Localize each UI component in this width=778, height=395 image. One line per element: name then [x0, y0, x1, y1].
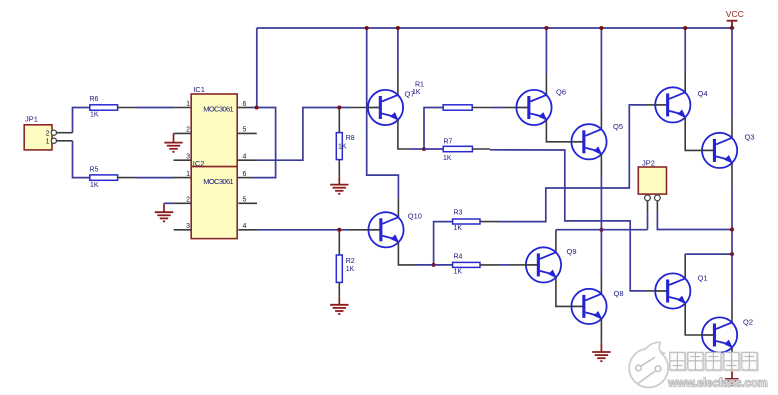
svg-text:JP1: JP1 — [25, 115, 38, 124]
transistor Q7 — [368, 90, 415, 126]
wire node to Q9 collector — [555, 230, 557, 253]
wire VCC rail to Q5 collector — [600, 28, 602, 129]
svg-text:1K: 1K — [443, 155, 452, 162]
junction rail x397.9 — [396, 26, 400, 30]
transistor Q3 — [702, 133, 755, 168]
pin IC1.4 number — [243, 154, 247, 161]
pin IC2.6 number — [243, 171, 247, 178]
junction Q3 emitter node — [730, 228, 734, 232]
pin IC2.4 number — [243, 223, 247, 230]
wire node to R4 — [434, 264, 453, 266]
svg-text:1K: 1K — [412, 89, 421, 96]
resistor R3 — [453, 210, 480, 233]
wire R3 to Q4 base — [480, 105, 655, 222]
svg-text:1K: 1K — [338, 143, 347, 150]
svg-text:JP2: JP2 — [642, 158, 655, 167]
transistor Q6 — [516, 88, 566, 126]
ground at IC2 pin 2 — [155, 203, 173, 221]
svg-text:1: 1 — [46, 139, 50, 146]
svg-text:R4: R4 — [454, 254, 463, 261]
wire Q10 collector lead — [397, 198, 399, 217]
wire R5 to IC2 pin 1 — [118, 177, 192, 179]
node VCC label — [726, 9, 744, 19]
svg-text:R5: R5 — [90, 167, 99, 174]
svg-text:Q4: Q4 — [698, 89, 708, 98]
svg-text:R2: R2 — [346, 258, 355, 265]
resistor R4 — [453, 254, 480, 276]
wire node to R7 — [424, 148, 443, 150]
wire node up to R1 — [424, 108, 443, 150]
connector JP2 — [638, 158, 666, 194]
junction R8 top — [337, 106, 341, 110]
wire JP1.2 stub — [57, 132, 73, 134]
wire VCC rail to Q6 collector — [545, 28, 547, 95]
pin JP1.2 circle — [51, 130, 56, 135]
wire Q3 emitter down — [731, 163, 733, 254]
wire IC1 pin 4 stub — [237, 159, 257, 161]
svg-text:www.elecfans.com: www.elecfans.com — [667, 377, 767, 390]
svg-text:R7: R7 — [444, 139, 453, 146]
svg-text:Q3: Q3 — [745, 133, 755, 142]
VCC power symbol — [727, 21, 738, 29]
resistor R6 — [90, 96, 118, 119]
junction VCC rail corner — [730, 26, 734, 30]
svg-text:1K: 1K — [454, 268, 463, 275]
transistor Q1 — [655, 273, 707, 308]
wire JP1.1 to R5 — [73, 141, 90, 178]
wire VCC rail to Q10 collector — [367, 28, 399, 198]
wire IC1 pin 2 stub — [174, 132, 192, 134]
watermark text 电子发烧友 — [671, 354, 758, 372]
svg-text:1K: 1K — [90, 112, 99, 119]
wire R1 to Q6 base — [472, 107, 516, 109]
ground below Q8 — [592, 344, 610, 362]
svg-text:1K: 1K — [90, 182, 99, 189]
transistor Q9 — [526, 247, 577, 283]
svg-text:6: 6 — [243, 171, 247, 178]
pin JP2.2 circle — [655, 195, 661, 201]
wire Q6 emitter to Q5 base — [546, 120, 571, 142]
wire IC2 pin 4 to Q10 base — [258, 229, 350, 231]
transistor Q2 — [702, 317, 753, 352]
svg-text:1: 1 — [186, 101, 190, 108]
resistor R8 — [336, 108, 354, 177]
svg-text:R1: R1 — [415, 82, 424, 89]
wire node to JP2 pin 1 — [556, 229, 648, 231]
connector JP1 — [24, 115, 52, 150]
wire R6 to IC1 pin 1 — [118, 107, 192, 109]
svg-text:Q9: Q9 — [567, 247, 577, 256]
pin JP1.1 circle — [51, 138, 56, 143]
wire IC2 pin 6 stub — [237, 177, 251, 179]
wire VCC rail to Q4 collector — [684, 28, 686, 93]
wire Q1 emitter to Q2 base — [685, 303, 702, 335]
wire JP1.1 stub — [57, 140, 73, 142]
svg-text:R8: R8 — [346, 135, 355, 142]
svg-text:VCC: VCC — [726, 9, 744, 19]
transistor Q5 — [571, 122, 623, 159]
transistor Q8 — [571, 289, 623, 324]
junction rail x685.2 — [683, 26, 687, 30]
resistor R2 — [336, 230, 354, 297]
svg-text:Q1: Q1 — [698, 274, 708, 283]
pin IC2.1 number — [186, 171, 190, 178]
wire Q10 emitter to R4 node — [398, 242, 433, 265]
svg-text:MOC3061: MOC3061 — [203, 177, 234, 186]
svg-text:1K: 1K — [346, 266, 355, 273]
junction IC1 pin 6 — [255, 106, 259, 110]
svg-text:Q2: Q2 — [743, 318, 753, 327]
wire VCC rail to Q7 collector — [397, 28, 399, 95]
pin IC1.6 number — [243, 101, 247, 108]
pin IC1.1 number — [186, 101, 190, 108]
wire IC1 pin 6 stub — [237, 107, 251, 109]
wire Q8 emitter to ground — [600, 319, 602, 344]
op-amp U IC2 MOC3061 — [191, 159, 237, 239]
wire R3 branch from R4 node — [434, 222, 453, 265]
svg-text:R6: R6 — [90, 96, 99, 103]
op-amp U IC1 MOC3061 — [191, 85, 237, 167]
wire VCC rail to Q3 collector — [731, 28, 733, 138]
ground below Q2 — [725, 379, 739, 386]
svg-text:R3: R3 — [454, 210, 463, 217]
junction R4 node — [432, 263, 436, 267]
svg-text:Q5: Q5 — [613, 122, 623, 131]
svg-text:MOC3061: MOC3061 — [203, 105, 234, 114]
wire Q4 emitter to Q3 base — [685, 117, 702, 150]
wire IC1 pin 6 to IC2 pin 6 — [251, 108, 276, 178]
svg-text:Q8: Q8 — [614, 289, 624, 298]
resistor R1 — [412, 82, 472, 111]
svg-text:1K: 1K — [454, 225, 463, 232]
wire IC2 pin 4 stub — [238, 229, 257, 231]
wire IC2 pin 3 stub — [174, 229, 192, 231]
wire Q7 base lead — [350, 107, 368, 109]
wire R7 to Q1 base — [472, 149, 655, 291]
wire Q2 emitter to ground — [731, 347, 733, 378]
svg-text:1: 1 — [186, 171, 190, 178]
junction rail x366.7 — [365, 26, 369, 30]
wire node to Q2 collector — [731, 254, 733, 323]
pin JP2.1 circle — [645, 195, 651, 201]
wire IC2 pin 5 stub — [238, 202, 257, 204]
watermark logo elecfans — [629, 342, 668, 387]
wire IC1 pin 3 stub — [174, 159, 192, 161]
wire rail drop to IC1 pin 6 — [256, 28, 258, 108]
watermark text www.elecfans.com — [667, 377, 769, 391]
junction Q5 emitter node — [599, 228, 603, 232]
pin IC1.5 number — [243, 127, 247, 134]
ground below R2 — [330, 297, 348, 314]
wire IC2 pin 2 stub — [164, 202, 191, 204]
wire JP2.1 lead down — [647, 201, 649, 230]
wire R4 to Q9 base — [480, 264, 526, 266]
resistor R7 — [443, 139, 472, 163]
svg-text:IC1: IC1 — [193, 85, 205, 94]
pin IC2.3 number — [186, 223, 190, 230]
junction Q7 emitter node — [422, 147, 426, 151]
wire Q7 emitter to node — [398, 120, 424, 149]
ground at IC1 pin 2 — [164, 133, 182, 151]
wire VCC top rail — [257, 27, 732, 29]
transistor Q10 — [368, 212, 422, 248]
resistor R5 — [90, 167, 118, 189]
wire IC1 pin 4 to Q7 base — [258, 108, 350, 161]
pin IC1.3 number — [186, 154, 190, 161]
transistor Q4 — [655, 87, 707, 122]
ground below R8 — [330, 176, 348, 194]
pin IC2.5 number — [243, 197, 247, 204]
junction rail x601.4 — [599, 26, 603, 30]
junction Q1 collector node — [730, 252, 734, 256]
pin IC1.2 number — [186, 127, 190, 134]
wire IC1 pin 5 stub — [237, 132, 257, 134]
pin IC2.2 number — [186, 197, 190, 204]
junction R2 top — [337, 228, 341, 232]
svg-text:Q10: Q10 — [408, 212, 422, 221]
svg-text:IC2: IC2 — [193, 159, 205, 168]
junction rail x546.4 — [544, 26, 548, 30]
wire JP2.2 lead to Q3 emitter node — [657, 201, 732, 230]
wire Q10 base lead — [350, 229, 369, 231]
wire Q9 emitter to Q8 base — [556, 277, 572, 306]
wire node to Q1 collector — [685, 254, 732, 279]
svg-text:Q6: Q6 — [556, 88, 566, 97]
wire Q5 emitter to Q8 collector — [600, 154, 602, 294]
svg-text:2: 2 — [46, 131, 50, 138]
wire JP1.2 to R6 — [73, 108, 90, 133]
